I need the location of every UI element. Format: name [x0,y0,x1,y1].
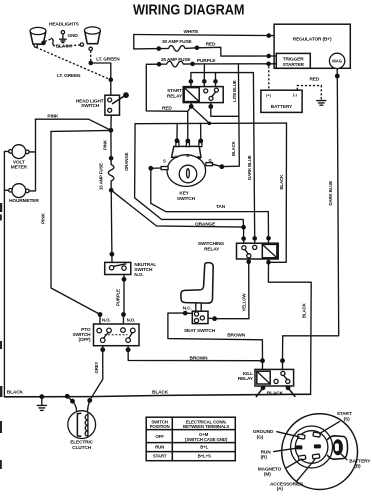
seat (profile) [181,263,213,303]
svg-text:RELAY: RELAY [204,247,220,253]
svg-text:GND: GND [68,33,79,39]
table SWITCH POSITION [146,417,235,461]
wire purple drop to start relay [203,64,205,81]
wire BROWN#2 PTO to kill relay [128,350,262,361]
svg-text:RUN: RUN [155,445,164,450]
node clutch right lead / grey [87,398,92,403]
svg-text:B+L+S: B+L+S [198,453,211,458]
svg-text:MAG: MAG [332,59,342,64]
wire PINK-B vertical to PTO [51,131,100,314]
svg-text:VOLT: VOLT [13,159,25,165]
svg-text:30 AMP FUSE: 30 AMP FUSE [162,39,192,45]
wire main horizontal y123 [135,122,286,125]
ground GND (headlights) [60,31,79,43]
svg-text:WHITE: WHITE [184,29,200,35]
node J1 [109,128,114,133]
key switch rear connector [282,414,358,490]
pin key L [175,138,180,143]
wire J3 to switching relay [243,227,245,238]
node white at regulator [267,33,272,38]
wire headlight switch to J1 [110,115,112,130]
svg-text:BATTERY: BATTERY [271,104,293,109]
fuse F1 15 AMP FUSE (vertical) [98,130,114,192]
svg-text:B+L: B+L [200,445,208,450]
svg-text:PINK: PINK [47,114,59,120]
svg-text:OFF: OFF [155,434,164,439]
svg-text:BLACK: BLACK [7,390,24,396]
pins switching relay top [241,236,246,241]
node mag [335,74,340,79]
svg-text:SEAT SWITCH: SEAT SWITCH [184,328,216,334]
wire RED from 25A fuse to B and coil [146,64,191,111]
headlight lamp right [80,27,100,51]
trigger starter block [276,53,310,68]
svg-text:ORANGE: ORANGE [124,152,129,171]
fuse F2 30 AMP FUSE [134,39,199,51]
wire ORANGE-B diagonal from fuse [111,190,243,227]
switch S1 KEY SWITCH [161,141,212,202]
volt meter [9,145,30,171]
svg-text:(A): (A) [277,486,284,492]
wire dashed battery minus to ground [297,86,321,100]
svg-text:METER: METER [11,165,28,171]
svg-text:GREY: GREY [94,361,99,373]
pin key B [185,139,190,144]
wire BLACK#1 from battery line down to switching relay [269,123,287,262]
svg-text:B: B [186,153,189,158]
wire dashed lamp-right to brace [57,45,81,47]
svg-text:PINK: PINK [41,212,47,224]
switch S2 NEUTRAL SWITCH [105,262,157,278]
svg-text:LT. GREEN: LT. GREEN [57,73,81,79]
svg-text:PINK: PINK [103,139,108,150]
wire fuse to neutral switch [110,190,113,262]
wire dashed lamp-left to gnd brace [45,39,52,42]
wire BROWN#1 seat to kill relay [168,313,263,361]
svg-text:(R): (R) [261,454,268,460]
pins switching relay bottom [246,259,251,264]
wire DARK BLUE vertical to switching relay [253,73,254,239]
svg-text:(M): (M) [264,472,271,478]
svg-text:BETWEEN TERMINALS: BETWEEN TERMINALS [183,424,229,429]
wire PINK from meters to J1 [36,119,111,130]
svg-text:BROWN: BROWN [227,332,246,338]
pin seat switch N.C. [183,311,188,316]
wire black bus [4,394,310,397]
pins PTO top [98,312,103,317]
wire PURPLE to trigger starter [193,63,269,65]
svg-text:POSITION: POSITION [150,424,170,429]
wire key G stub [213,164,222,167]
hourmeter [9,184,40,204]
svg-text:SWITCHING: SWITCHING [198,241,225,247]
svg-text:(G): (G) [257,434,264,440]
wire PINK-B horizontal at y131 [51,130,111,131]
node LT. GREEN junction [89,61,94,66]
pin key M [198,139,203,144]
svg-text:(SWITCH CASE GND): (SWITCH CASE GND) [185,437,228,442]
node ground tap [39,394,44,399]
svg-text:LT. GREEN: LT. GREEN [96,57,120,63]
svg-text:DARK BLUE: DARK BLUE [328,181,333,206]
pins kill relay bottom with legs [261,385,266,390]
relay K2 SWITCHING RELAY [198,241,278,259]
pins start relay top [189,79,194,84]
node key S [148,166,153,171]
wire mag stub [336,69,338,76]
seat switch plunger [196,303,201,311]
svg-text:BLACK: BLACK [302,302,307,318]
wire GREY to clutch [90,350,103,401]
svg-text:(S): (S) [344,416,350,422]
MAG terminal [329,53,344,68]
wire dashed battery plus [268,66,270,90]
fuse F3 25 AMP FUSE [146,57,195,67]
node key G [219,164,224,169]
brace and BLACK label [51,38,54,46]
wire ORANGE-A from key area [135,124,244,227]
svg-text:L: L [175,154,178,159]
wire start relay third terminal riser [215,73,217,82]
wire WHITE to regulator [134,35,269,36]
svg-text:N.O.: N.O. [134,272,143,278]
svg-text:BLACK: BLACK [267,391,284,397]
svg-text:N.O.: N.O. [102,318,110,323]
ground (battery) [317,101,326,106]
node on headlight switch feed [109,78,114,83]
svg-text:KILL: KILL [243,371,253,377]
regulator U1 [274,24,350,68]
battery BT1 [261,90,302,112]
svg-text:(-): (-) [293,92,298,97]
wire TAN from key S to switching relay [151,168,269,238]
svg-text:TRIGGER: TRIGGER [283,56,304,62]
svg-text:S: S [163,159,166,164]
wire clutch right lead [87,400,89,412]
svg-text:YELLOW: YELLOW [241,293,246,312]
pins PTO bottom [100,347,105,352]
svg-text:(+): (+) [266,92,272,97]
svg-text:SWITCH: SWITCH [177,196,196,202]
wire YELLOW to seat switch [215,262,249,319]
wire lt green junction to headlight switch [91,63,111,95]
svg-text:LITE BLUE: LITE BLUE [232,80,237,102]
svg-text:DARK BLUE: DARK BLUE [247,155,252,180]
wire dashed LT. GREEN diagonal from left lamp [36,47,110,79]
svg-text:TAN: TAN [216,204,226,210]
svg-text:RED: RED [206,41,216,47]
wire white/30A corner [133,35,135,49]
svg-text:PURPLE: PURPLE [116,289,121,306]
svg-text:START: START [167,88,182,94]
svg-text:ACCESSORIES: ACCESSORIES [270,481,304,487]
node clutch left lead on bus [65,394,70,399]
svg-text:START: START [153,453,167,458]
svg-text:PURPLE: PURPLE [197,58,217,64]
svg-text:REGULATOR (B+): REGULATOR (B+) [293,36,332,42]
head light switch [76,92,129,115]
svg-text:25 AMP FUSE: 25 AMP FUSE [161,57,191,63]
wire key M drop [200,123,202,140]
switch S4 SEAT SWITCH [183,305,216,334]
pins kill relay top [260,358,265,363]
wire start relay top feed [191,73,254,82]
svg-text:BLACK: BLACK [279,174,284,190]
wire DARK BLUE#2 from MAG to kill relay [283,76,339,361]
svg-text:RED: RED [310,77,320,83]
svg-text:STARTER: STARTER [283,62,305,68]
relay K1 START RELAY [167,87,223,103]
wire purple drop2 / black to key G [222,64,239,167]
wire PURPLE neutral to PTO [123,275,125,315]
pin start relay bottom right [208,104,213,109]
svg-text:ORANGE: ORANGE [195,221,216,227]
wire meters left bus [4,151,8,396]
headlight lamp left [30,27,46,47]
node J3 orange junction [241,225,246,230]
wire meters right vertical [29,119,36,191]
wire BLACK#2 to bus [268,262,311,394]
wire start relay coil to battery line [191,106,209,123]
edge artifacts [0,203,2,469]
svg-text:HEADLIGHTS: HEADLIGHTS [49,22,80,28]
svg-text:KEY: KEY [179,190,189,196]
svg-text:15 AMP FUSE: 15 AMP FUSE [98,163,103,190]
node above neutral switch [110,252,115,257]
svg-text:M: M [198,155,202,160]
pin start relay coil bottom [189,104,194,109]
switch S3 PTO SWITCH [72,324,139,346]
svg-text:(B): (B) [354,464,361,470]
svg-text:N.C.: N.C. [183,305,192,311]
svg-text:SWITCH: SWITCH [81,103,100,109]
svg-text:BLACK: BLACK [152,390,169,396]
wire clutch left lead [67,396,77,412]
wire key S stub [151,167,161,169]
wire LITE BLUE loop to key G [211,107,239,117]
svg-text:START: START [337,411,352,417]
clutch L1 ELECTRIC CLUTCH [68,411,96,451]
relay K3 KILL RELAY [238,369,294,386]
svg-text:RED: RED [162,106,172,112]
svg-text:GROUND: GROUND [253,429,274,435]
svg-text:ELECTRIC: ELECTRIC [70,440,93,446]
svg-text:WIRING DIAGRAM: WIRING DIAGRAM [133,3,245,19]
svg-text:BROWN: BROWN [190,355,209,361]
svg-text:BLACK: BLACK [231,140,236,156]
svg-text:RELAY: RELAY [238,376,254,382]
ground (chassis) [37,397,46,411]
svg-text:(OFF): (OFF) [78,337,91,343]
wire dashed from right lamp down [90,51,92,62]
wire hourmeter left stub [4,189,8,191]
svg-text:CLUTCH: CLUTCH [72,445,92,451]
wire RED from 30A to trigger starter [197,47,269,56]
wire key B riser and RED feed [187,111,189,140]
pin seat switch right [212,316,217,321]
svg-text:HOURMETER: HOURMETER [9,198,39,204]
svg-text:N.O.: N.O. [127,318,135,323]
svg-text:RELAY: RELAY [167,93,183,99]
wire key L drop [176,124,178,141]
